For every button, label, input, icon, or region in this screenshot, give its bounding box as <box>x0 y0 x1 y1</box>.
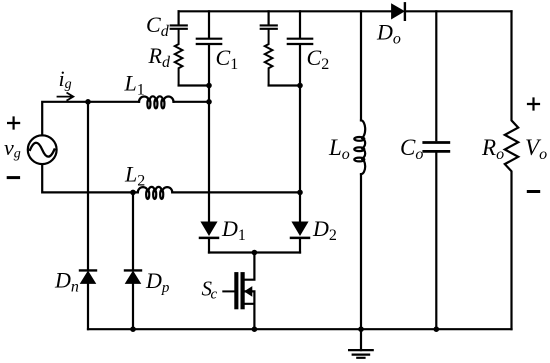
node Lo bottom junction <box>358 326 364 332</box>
svg-text:Co: Co <box>400 135 423 163</box>
diode Do <box>392 3 405 20</box>
svg-text:C1: C1 <box>216 45 239 73</box>
wire Dp branch vertical <box>132 192 134 329</box>
node Dp bottom rail junction <box>130 326 136 332</box>
svg-text:Do: Do <box>376 20 401 48</box>
label + (output) <box>528 99 539 110</box>
capacitor C1 <box>197 11 221 102</box>
svg-text:D1: D1 <box>221 216 246 244</box>
resistor Rd <box>175 30 183 86</box>
node Co bottom junction <box>434 326 440 332</box>
label - (output) <box>528 190 538 193</box>
svg-text:vg: vg <box>4 135 21 162</box>
inductor L1 <box>139 96 174 108</box>
svg-text:L2: L2 <box>124 162 145 190</box>
svg-text:Cd: Cd <box>146 12 170 40</box>
capacitor Cd <box>171 11 187 29</box>
wire source top lead <box>42 102 139 136</box>
label + (source) <box>8 118 19 129</box>
wire damper1 bottom <box>179 84 209 86</box>
diode D1 <box>200 222 218 253</box>
current arrow ig <box>58 93 74 100</box>
capacitor Cd2 (second damper cap) <box>261 11 277 29</box>
node switch source junction <box>252 326 258 332</box>
node damper2 junction <box>297 83 303 89</box>
svg-text:C2: C2 <box>307 45 330 73</box>
svg-text:ig: ig <box>59 66 72 92</box>
resistor Ro <box>505 11 518 329</box>
node L1/C1 junction <box>206 99 212 105</box>
resistor Rd2 (second damper resistor) <box>265 30 273 86</box>
svg-text:L1: L1 <box>124 71 145 99</box>
capacitor Co <box>424 11 449 329</box>
svg-text:Ro: Ro <box>481 135 504 163</box>
node switch drain junction <box>252 250 258 256</box>
wire D1-D2 cathode bus <box>209 251 300 253</box>
inductor L2 <box>138 187 173 199</box>
wire L1 to C1 column <box>174 101 210 103</box>
node Dp junction on L2 wire <box>130 190 136 196</box>
wire top rail left segment (Cd top to Do anode) <box>179 10 392 12</box>
diode Dp <box>125 270 141 283</box>
node ig junction <box>85 99 91 105</box>
wire damper2 bottom <box>269 84 300 86</box>
wire L2 to C2 column <box>172 191 300 193</box>
svg-text:D2: D2 <box>312 216 337 244</box>
svg-text:Sc: Sc <box>202 277 218 303</box>
node damper1 junction <box>206 83 212 89</box>
capacitor C2 <box>288 11 312 192</box>
wire Dn branch vertical <box>87 102 89 329</box>
diode D2 <box>291 222 309 253</box>
wire bottom rail <box>88 328 512 330</box>
svg-text:Dn: Dn <box>54 268 79 296</box>
node L2/C2 junction <box>297 190 303 196</box>
ground <box>349 329 373 358</box>
transistor Sc (MOSFET) <box>223 253 254 330</box>
wire source bottom lead to L2 wire <box>42 164 138 192</box>
voltage source vg <box>28 135 57 164</box>
wire C2 column down to D2 <box>299 192 301 224</box>
wire top rail right segment (Do cathode to top-right corner) <box>406 10 512 12</box>
inductor Lo <box>354 11 365 329</box>
svg-text:Vo: Vo <box>525 135 547 163</box>
svg-text:Dp: Dp <box>145 268 170 296</box>
label - (source) <box>8 176 18 179</box>
wire C1 column down to D1 <box>208 102 210 224</box>
diode Dn <box>80 270 96 283</box>
svg-text:Lo: Lo <box>328 135 350 163</box>
svg-text:Rd: Rd <box>148 43 171 71</box>
